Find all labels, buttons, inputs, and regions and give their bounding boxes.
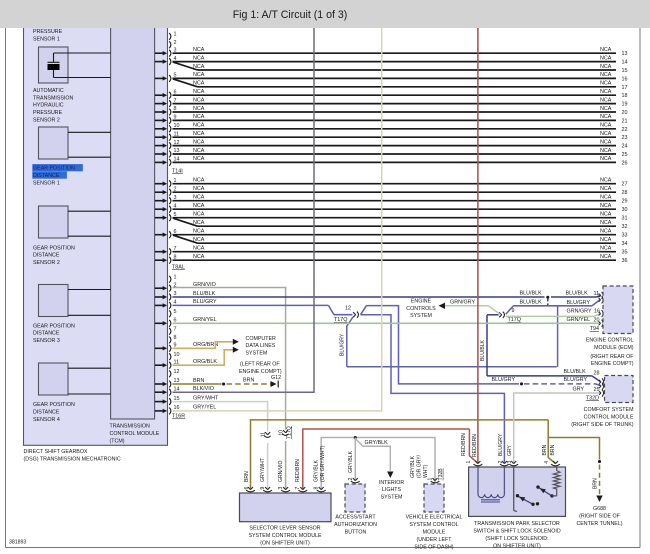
svg-text:RED/BRN: RED/BRN <box>461 433 467 456</box>
svg-text:11: 11 <box>594 291 600 297</box>
svg-text:MODULE (ECM): MODULE (ECM) <box>594 345 634 351</box>
svg-text:GRY/BLK: GRY/BLK <box>348 450 354 473</box>
svg-text:NCA: NCA <box>600 72 612 78</box>
DSG mechatronic outer box <box>24 24 168 445</box>
svg-text:24: 24 <box>622 144 628 150</box>
svg-text:14: 14 <box>622 60 628 66</box>
wire NCA row to terminal 19 <box>173 103 617 105</box>
svg-text:T94: T94 <box>590 326 599 332</box>
svg-text:SENSOR 1: SENSOR 1 <box>33 180 60 186</box>
park selector pin 1 socket <box>475 461 478 464</box>
TCM edge pin 2 y=192.2 <box>155 191 163 193</box>
svg-text:GRY/BLK: GRY/BLK <box>410 455 416 478</box>
TCM edge pin 1 y=36.4 <box>169 33 171 40</box>
TCM edge pin 14 y=162.4 <box>155 161 163 163</box>
wire NCA row to terminal 15 <box>198 69 617 71</box>
svg-text:GEAR POSITION: GEAR POSITION <box>33 323 75 329</box>
svg-text:BLU/BLK: BLU/BLK <box>566 291 589 297</box>
TCM edge pin 8 y=260.2 <box>155 259 163 261</box>
svg-text:34: 34 <box>622 241 628 247</box>
svg-text:NCA: NCA <box>600 97 612 103</box>
svg-text:T16R: T16R <box>172 414 185 420</box>
svg-text:CONTROL MODULE: CONTROL MODULE <box>584 414 634 420</box>
park switch common leg pin 3 <box>513 467 515 511</box>
svg-text:NCA: NCA <box>193 195 205 201</box>
svg-text:NCA: NCA <box>193 106 205 112</box>
wire NCA row to terminal 32 <box>198 225 617 227</box>
svg-text:SENSOR 3: SENSOR 3 <box>33 338 60 344</box>
svg-text:NCA: NCA <box>193 186 205 192</box>
fanout diagonal from pin 5 <box>173 79 198 87</box>
svg-text:G688: G688 <box>593 506 606 512</box>
svg-text:NCA: NCA <box>193 123 205 129</box>
svg-text:NCA: NCA <box>600 156 612 162</box>
svg-text:17: 17 <box>622 85 628 91</box>
svg-text:NCA: NCA <box>193 246 205 252</box>
svg-text:BLU/GRY: BLU/GRY <box>193 299 217 305</box>
outer frame border <box>5 28 7 548</box>
svg-text:BLU/BLK: BLU/BLK <box>193 291 216 297</box>
svg-text:ON SHIFTER UNIT): ON SHIFTER UNIT) <box>493 543 541 549</box>
gear position distance SENSOR 3 box <box>39 285 69 317</box>
svg-text:NCA: NCA <box>193 156 205 162</box>
svg-text:NCA: NCA <box>600 254 612 260</box>
svg-text:BRN: BRN <box>244 471 250 482</box>
TCM edge pin 8 y=339.9 <box>169 337 171 344</box>
svg-text:GRY/WHT: GRY/WHT <box>260 458 266 482</box>
svg-text:NCA: NCA <box>600 123 612 129</box>
inline connector 10 T17Q on GRN/VIO <box>283 430 286 433</box>
wire NCA row to terminal 36 <box>173 259 617 261</box>
svg-text:GRY/YEL: GRY/YEL <box>193 405 216 411</box>
svg-text:NCA: NCA <box>193 114 205 120</box>
svg-text:4: 4 <box>544 461 550 464</box>
svg-text:NCA: NCA <box>600 89 612 95</box>
svg-text:28: 28 <box>594 371 600 377</box>
TCM edge pin 8 y=112.0 <box>155 111 163 113</box>
wire NCA row to terminal 24 <box>173 145 617 147</box>
TCM edge pin 12 y=145.6 <box>155 145 163 147</box>
svg-text:COMPUTER: COMPUTER <box>246 336 276 342</box>
svg-text:ENGINE COMPT): ENGINE COMPT) <box>591 361 634 367</box>
svg-text:SIDE OF DASH): SIDE OF DASH) <box>414 544 453 550</box>
svg-text:BLU/BLK: BLU/BLK <box>480 339 486 361</box>
TCM edge pin 2 y=288.2 <box>155 287 163 289</box>
svg-text:8: 8 <box>313 487 319 490</box>
svg-text:NCA: NCA <box>600 47 612 53</box>
TCM edge pin 7 y=331.3 <box>169 328 171 335</box>
engine control module ECM box <box>603 286 633 334</box>
TCM edge pin 13 y=154.0 <box>155 153 163 155</box>
TCM box (transmission control module) <box>111 24 155 419</box>
TCM edge pin 11 y=365.2 <box>155 364 163 366</box>
GRY/BLK branch to access/start button pin 2 <box>354 438 356 480</box>
svg-text:SYSTEM: SYSTEM <box>381 495 403 501</box>
inline connector 12 T17Q on BLU/GRY <box>353 312 356 315</box>
svg-text:NCA: NCA <box>600 114 612 120</box>
SENSOR 2 wires to TCM <box>68 210 111 212</box>
TCM edge pin 6 y=234.7 <box>155 234 163 236</box>
wire NCA row to terminal 22 <box>173 128 617 130</box>
svg-text:NCA: NCA <box>193 139 205 145</box>
fanout diagonal from pin 6 group2 <box>173 235 198 243</box>
svg-text:9: 9 <box>260 487 266 490</box>
svg-text:18: 18 <box>622 93 628 99</box>
wire GRY from comfort pin 25 to park selector pin 3 <box>514 393 598 463</box>
pressure sensor 2 symbol <box>53 53 55 62</box>
svg-text:GRY/WHT: GRY/WHT <box>193 395 219 401</box>
svg-text:NCA: NCA <box>193 131 205 137</box>
wire NCA row to terminal 20 <box>173 111 617 113</box>
wire BRN pin13 with splice and dashed to G12 <box>173 383 222 385</box>
svg-text:NCA: NCA <box>193 47 205 53</box>
svg-text:GRN/YEL: GRN/YEL <box>567 317 591 323</box>
svg-text:1: 1 <box>466 461 472 464</box>
TCM edge pin 3 y=297.0 <box>155 296 163 298</box>
wire ORG/BRN pin9 to computer data lines arrow <box>173 342 234 349</box>
inline connector 11 on GRY/WHT <box>265 432 268 435</box>
svg-text:T17Q: T17Q <box>287 426 293 439</box>
svg-text:GEAR POSITION: GEAR POSITION <box>33 245 75 251</box>
svg-text:(RIGHT REAR OF: (RIGHT REAR OF <box>590 354 634 360</box>
svg-text:NCA: NCA <box>600 220 612 226</box>
svg-text:30: 30 <box>622 207 628 213</box>
wire NCA row to terminal 23 <box>173 136 617 138</box>
svg-text:25: 25 <box>622 152 628 158</box>
svg-text:NCA: NCA <box>600 131 612 137</box>
svg-text:LIGHTS: LIGHTS <box>382 487 402 493</box>
svg-text:BLK/VIO: BLK/VIO <box>193 386 214 392</box>
wire BLU/GRY pin4 row <box>173 304 329 306</box>
svg-text:DISTANCE: DISTANCE <box>33 173 60 179</box>
svg-text:10: 10 <box>174 352 180 358</box>
svg-text:BLU/GRY: BLU/GRY <box>498 433 504 456</box>
svg-text:22: 22 <box>622 127 628 133</box>
TCM edge pin 6 y=95.2 <box>155 94 163 96</box>
svg-text:AUTOMATIC: AUTOMATIC <box>33 88 64 94</box>
svg-text:NCA: NCA <box>600 186 612 192</box>
svg-text:BLU/GRY: BLU/GRY <box>492 377 516 383</box>
svg-text:NCA: NCA <box>600 178 612 184</box>
wire NCA row to terminal 26 <box>173 161 617 163</box>
wire NCA row to terminal 34 <box>198 242 617 244</box>
vehicle electrical system control module box <box>424 484 444 512</box>
svg-text:9: 9 <box>512 308 515 314</box>
svg-text:29: 29 <box>622 199 628 205</box>
access start authorization button box <box>345 484 365 512</box>
svg-text:(LEFT REAR OF: (LEFT REAR OF <box>240 362 280 368</box>
svg-text:SYSTEM CONTROL MODULE: SYSTEM CONTROL MODULE <box>248 533 322 539</box>
svg-text:SYSTEM CONTROL: SYSTEM CONTROL <box>409 522 458 528</box>
svg-text:2: 2 <box>174 40 177 46</box>
TCM edge pin 9 y=120.4 <box>155 119 163 121</box>
wire GRY/WHT pin15 to selector module pin 9 <box>173 402 268 432</box>
wire NCA row to terminal 31 <box>173 217 617 219</box>
svg-text:23: 23 <box>622 135 628 141</box>
BLU/GRY cross horizontal to riser x557.6 <box>347 366 557 368</box>
dashed splice jog BLU/BLK to BLU/GRY row <box>547 299 549 306</box>
svg-text:NCA: NCA <box>193 97 205 103</box>
svg-text:381893: 381893 <box>9 540 26 546</box>
svg-text:CONTROL MODULE: CONTROL MODULE <box>110 431 160 437</box>
wire BLU/BLK riser from connector 9 down to comfort pin 28 <box>487 314 499 316</box>
svg-text:GRY/BLK: GRY/BLK <box>313 459 319 482</box>
wire NCA row to terminal 16 <box>173 77 617 79</box>
svg-text:GRY/BLK: GRY/BLK <box>365 440 389 446</box>
svg-text:T17Q: T17Q <box>508 317 521 323</box>
svg-text:NCA: NCA <box>600 195 612 201</box>
svg-text:AUTHORIZATION: AUTHORIZATION <box>334 522 377 528</box>
svg-text:BRN: BRN <box>193 378 204 384</box>
wire NCA row to terminal 13 <box>173 52 617 54</box>
wire NCA row to terminal 33 <box>173 234 617 236</box>
svg-text:BRN: BRN <box>243 377 254 383</box>
svg-text:1: 1 <box>174 32 177 38</box>
svg-text:ORG/BRN: ORG/BRN <box>193 342 218 348</box>
svg-text:T32D: T32D <box>586 395 599 401</box>
svg-text:PRESSURE: PRESSURE <box>33 29 63 35</box>
svg-text:ORG/BLK: ORG/BLK <box>193 359 217 365</box>
svg-text:MODULE: MODULE <box>423 530 446 536</box>
svg-text:1: 1 <box>174 275 177 281</box>
svg-text:BRN: BRN <box>550 444 556 455</box>
wire BLU/BLK pin3 row to ECM pin 11 <box>173 296 545 298</box>
svg-text:NCA: NCA <box>193 229 205 235</box>
fanout diagonal from pin 4 <box>173 62 198 70</box>
svg-text:(SHIFT LOCK SOLENOID:: (SHIFT LOCK SOLENOID: <box>485 536 548 542</box>
TCM edge pin 14 y=392.2 <box>155 391 163 393</box>
svg-text:CENTER TUNNEL): CENTER TUNNEL) <box>576 521 622 527</box>
svg-text:DISTANCE: DISTANCE <box>33 253 60 259</box>
svg-text:28: 28 <box>622 190 628 196</box>
svg-text:CONTROLS: CONTROLS <box>406 306 436 312</box>
BRN dashed drop to ground G688 <box>598 460 601 463</box>
svg-text:(RIGHT SIDE OF TRUNK): (RIGHT SIDE OF TRUNK) <box>571 422 633 428</box>
gear position distance SENSOR 4 box <box>39 363 69 395</box>
svg-text:15: 15 <box>622 68 628 74</box>
svg-text:31: 31 <box>622 216 628 222</box>
BLU/GRY left branch from connector 12 down <box>347 317 353 367</box>
svg-text:GRY: GRY <box>573 386 585 392</box>
svg-text:(DSG) TRANSMISSION MECHATRONIC: (DSG) TRANSMISSION MECHATRONIC <box>24 457 121 463</box>
TCM edge pin 4 y=305.4 <box>155 304 163 306</box>
svg-text:DISTANCE: DISTANCE <box>33 410 60 416</box>
svg-text:(UNDER LEFT: (UNDER LEFT <box>416 537 452 543</box>
svg-text:NCA: NCA <box>600 64 612 70</box>
svg-text:NCA: NCA <box>193 148 205 154</box>
wire ORG/BLK pin11 to computer data lines arrow <box>173 350 234 365</box>
TCM edge pin 1 y=183.7 <box>155 183 163 185</box>
svg-text:GRY: GRY <box>507 444 513 456</box>
TCM edge pin 5 y=78.4 <box>155 77 163 79</box>
svg-text:NCA: NCA <box>193 203 205 209</box>
svg-text:11: 11 <box>261 432 267 437</box>
svg-text:19: 19 <box>622 102 628 108</box>
TCM edge pin 4 y=209.2 <box>155 208 163 210</box>
svg-text:27: 27 <box>622 182 628 188</box>
wire RED/BRN from selector module pin 7 <box>303 429 470 489</box>
svg-text:20: 20 <box>622 110 628 116</box>
wire NCA row to terminal 27 <box>173 183 617 185</box>
svg-text:(OR GRY/WHT): (OR GRY/WHT) <box>320 445 326 482</box>
svg-text:32: 32 <box>622 224 628 230</box>
svg-text:SELECTOR LEVER SENSOR: SELECTOR LEVER SENSOR <box>249 526 320 532</box>
svg-text:NCA: NCA <box>600 237 612 243</box>
svg-text:ENGINE: ENGINE <box>411 299 432 305</box>
TCM edge pin 3 y=200.7 <box>155 200 163 202</box>
wire NCA row to terminal 18 <box>173 94 617 96</box>
svg-text:WHT): WHT) <box>423 464 429 478</box>
svg-text:NCA: NCA <box>600 81 612 87</box>
svg-text:PRESSURE: PRESSURE <box>33 110 63 116</box>
wire NCA row to terminal 17 <box>198 86 617 88</box>
TCM edge pin 7 y=251.7 <box>155 251 163 253</box>
svg-text:NCA: NCA <box>193 254 205 260</box>
SENSOR 3 wires to TCM <box>68 289 111 291</box>
wire NCA row to terminal 30 <box>173 208 617 210</box>
wire NCA row to terminal 28 <box>173 191 617 193</box>
svg-text:GEAR POSITION: GEAR POSITION <box>33 402 75 408</box>
svg-text:25: 25 <box>594 387 600 393</box>
svg-text:7: 7 <box>174 327 177 333</box>
svg-text:NCA: NCA <box>193 89 205 95</box>
svg-text:GEAR POSITION: GEAR POSITION <box>33 166 75 172</box>
svg-text:HYDRAULIC: HYDRAULIC <box>33 103 64 109</box>
gear position distance SENSOR 2 box <box>39 206 69 238</box>
wire GRN/YEL pin6 row to ECM pin 20 <box>173 322 595 324</box>
TCM edge pin 3 y=53.2 <box>155 52 163 54</box>
SENSOR 4 wires to TCM <box>68 367 111 369</box>
svg-text:GRN/VIO: GRN/VIO <box>278 460 284 482</box>
svg-text:BLU/BLK: BLU/BLK <box>520 300 543 306</box>
svg-text:TRANSMISSION: TRANSMISSION <box>33 95 73 101</box>
svg-text:BLU/GRY: BLU/GRY <box>567 300 591 306</box>
svg-text:COMFORT SYSTEM: COMFORT SYSTEM <box>584 407 634 413</box>
svg-text:NCA: NCA <box>600 246 612 252</box>
wire NCA row to terminal 35 <box>173 251 617 253</box>
svg-text:T14I: T14I <box>172 168 183 174</box>
svg-text:SENSOR 4: SENSOR 4 <box>33 417 60 423</box>
svg-text:GRN/GRY: GRN/GRY <box>450 299 475 305</box>
svg-text:20: 20 <box>594 318 600 324</box>
svg-text:G12: G12 <box>271 375 281 381</box>
svg-text:5: 5 <box>174 309 177 315</box>
comfort system control module box <box>605 376 634 403</box>
svg-text:3: 3 <box>278 487 284 490</box>
svg-text:NCA: NCA <box>193 212 205 218</box>
wire BRN net: selector pin6 / park pin4 / ground G688 <box>251 420 549 489</box>
wire GRN/GRY from ECM pin 16 to engine controls system <box>506 315 594 317</box>
svg-text:(ON SHIFTER UNIT): (ON SHIFTER UNIT) <box>260 541 310 547</box>
TCM edge pin 7 y=103.6 <box>155 103 163 105</box>
svg-text:12: 12 <box>174 369 180 375</box>
wire GRN/VIO pin2 to selector module pin 3 <box>173 288 286 430</box>
svg-text:16: 16 <box>622 76 628 82</box>
BLU/GRY branch A after connector 12 to comfort module <box>361 306 367 315</box>
svg-text:DISTANCE: DISTANCE <box>33 331 60 337</box>
svg-text:T32B: T32B <box>438 468 444 481</box>
svg-text:Fig 1: A/T Circuit (1 of 3): Fig 1: A/T Circuit (1 of 3) <box>233 9 348 21</box>
SENSOR 1 wires to TCM <box>68 131 111 133</box>
wire GRY/YEL pin16 row up to top <box>173 24 382 411</box>
svg-text:BRN: BRN <box>593 478 599 489</box>
svg-text:VEHICLE ELECTRICAL: VEHICLE ELECTRICAL <box>406 515 463 521</box>
svg-text:INTERIOR: INTERIOR <box>379 480 404 486</box>
svg-text:RED/BRN: RED/BRN <box>472 434 478 457</box>
svg-text:ACCESS/START: ACCESS/START <box>335 515 376 521</box>
svg-text:BLU/GRY: BLU/GRY <box>564 377 588 383</box>
svg-text:BLU/BLK: BLU/BLK <box>564 369 587 375</box>
wire NCA row to terminal 21 <box>173 119 617 121</box>
wire GRY/BLK network bottom <box>321 438 435 489</box>
wire NCA row to terminal 29 <box>173 200 617 202</box>
TCM edge pin 5 y=313.8 <box>169 310 171 317</box>
svg-text:RED/BRN: RED/BRN <box>295 459 301 482</box>
wire BLK/VIO pin14 row up to top <box>173 24 315 392</box>
svg-text:NCA: NCA <box>600 212 612 218</box>
automatic transmission hydraulic pressure sensor 2 box <box>39 47 69 83</box>
svg-text:NCA: NCA <box>600 203 612 209</box>
svg-text:8: 8 <box>174 335 177 341</box>
title bar <box>0 0 650 28</box>
svg-text:SYSTEM: SYSTEM <box>246 350 268 356</box>
svg-text:36: 36 <box>622 258 628 264</box>
svg-text:33: 33 <box>622 233 628 239</box>
svg-text:13: 13 <box>622 51 628 57</box>
svg-text:DATA LINES: DATA LINES <box>246 343 276 349</box>
svg-text:7: 7 <box>295 487 301 490</box>
TCM edge pin 5 y=217.7 <box>155 217 163 219</box>
TCM edge pin 15 y=401.6 <box>155 401 163 403</box>
fanout diagonal from pin 5 group2 <box>173 218 198 226</box>
svg-text:BUTTON: BUTTON <box>345 530 367 536</box>
park resistor <box>556 467 558 471</box>
svg-text:TRANSMISSION: TRANSMISSION <box>110 424 150 430</box>
svg-text:BRN: BRN <box>542 444 548 455</box>
TCM edge pin 10 y=356.7 <box>169 353 171 360</box>
svg-text:DIRECT SHIFT GEARBOX: DIRECT SHIFT GEARBOX <box>24 449 88 455</box>
wire NCA row to terminal 14 <box>173 61 617 63</box>
TCM edge pin 1 y=279.3 <box>169 276 171 283</box>
TCM edge pin 6 y=323.3 <box>155 322 163 324</box>
TCM edge pin 13 y=384 <box>155 383 163 385</box>
svg-text:SENSOR 2: SENSOR 2 <box>33 117 60 123</box>
svg-text:BLU/BLK: BLU/BLK <box>520 291 543 297</box>
shift lock solenoid coil <box>477 467 479 494</box>
svg-text:35: 35 <box>622 250 628 256</box>
svg-text:GRN/YEL: GRN/YEL <box>193 317 217 323</box>
SENSOR 1 label <box>32 164 83 171</box>
svg-text:TRANSMISSION PARK SELECTOR: TRANSMISSION PARK SELECTOR <box>474 521 560 527</box>
svg-text:T8AL: T8AL <box>172 264 185 270</box>
BLU/GRY branch B after connector 12 to park selector pin 2 <box>361 315 505 463</box>
svg-text:SWITCH & SHIFT LOCK SOLENOID: SWITCH & SHIFT LOCK SOLENOID <box>473 529 560 535</box>
GRY/BLK branch to interior lights arrow <box>355 439 390 472</box>
TCM edge pin 11 y=137.2 <box>155 136 163 138</box>
gear position distance SENSOR 1 box <box>39 127 69 159</box>
BLU/GRY row into ECM (BLU/GRY pin) <box>513 305 592 307</box>
wire RED/BRN riser from top to park selector pin 1 <box>477 24 479 463</box>
svg-text:GRN/GRY: GRN/GRY <box>567 308 592 314</box>
svg-text:NCA: NCA <box>600 148 612 154</box>
svg-text:(OR GRY/: (OR GRY/ <box>417 454 423 478</box>
svg-text:16: 16 <box>594 308 600 314</box>
selector lever sensor system control module box <box>240 493 332 522</box>
TCM edge pin 2 y=44.8 <box>169 41 171 48</box>
svg-text:ENGINE CONTROL: ENGINE CONTROL <box>586 338 634 344</box>
svg-text:(TCM): (TCM) <box>110 439 125 445</box>
svg-text:NCA: NCA <box>600 229 612 235</box>
